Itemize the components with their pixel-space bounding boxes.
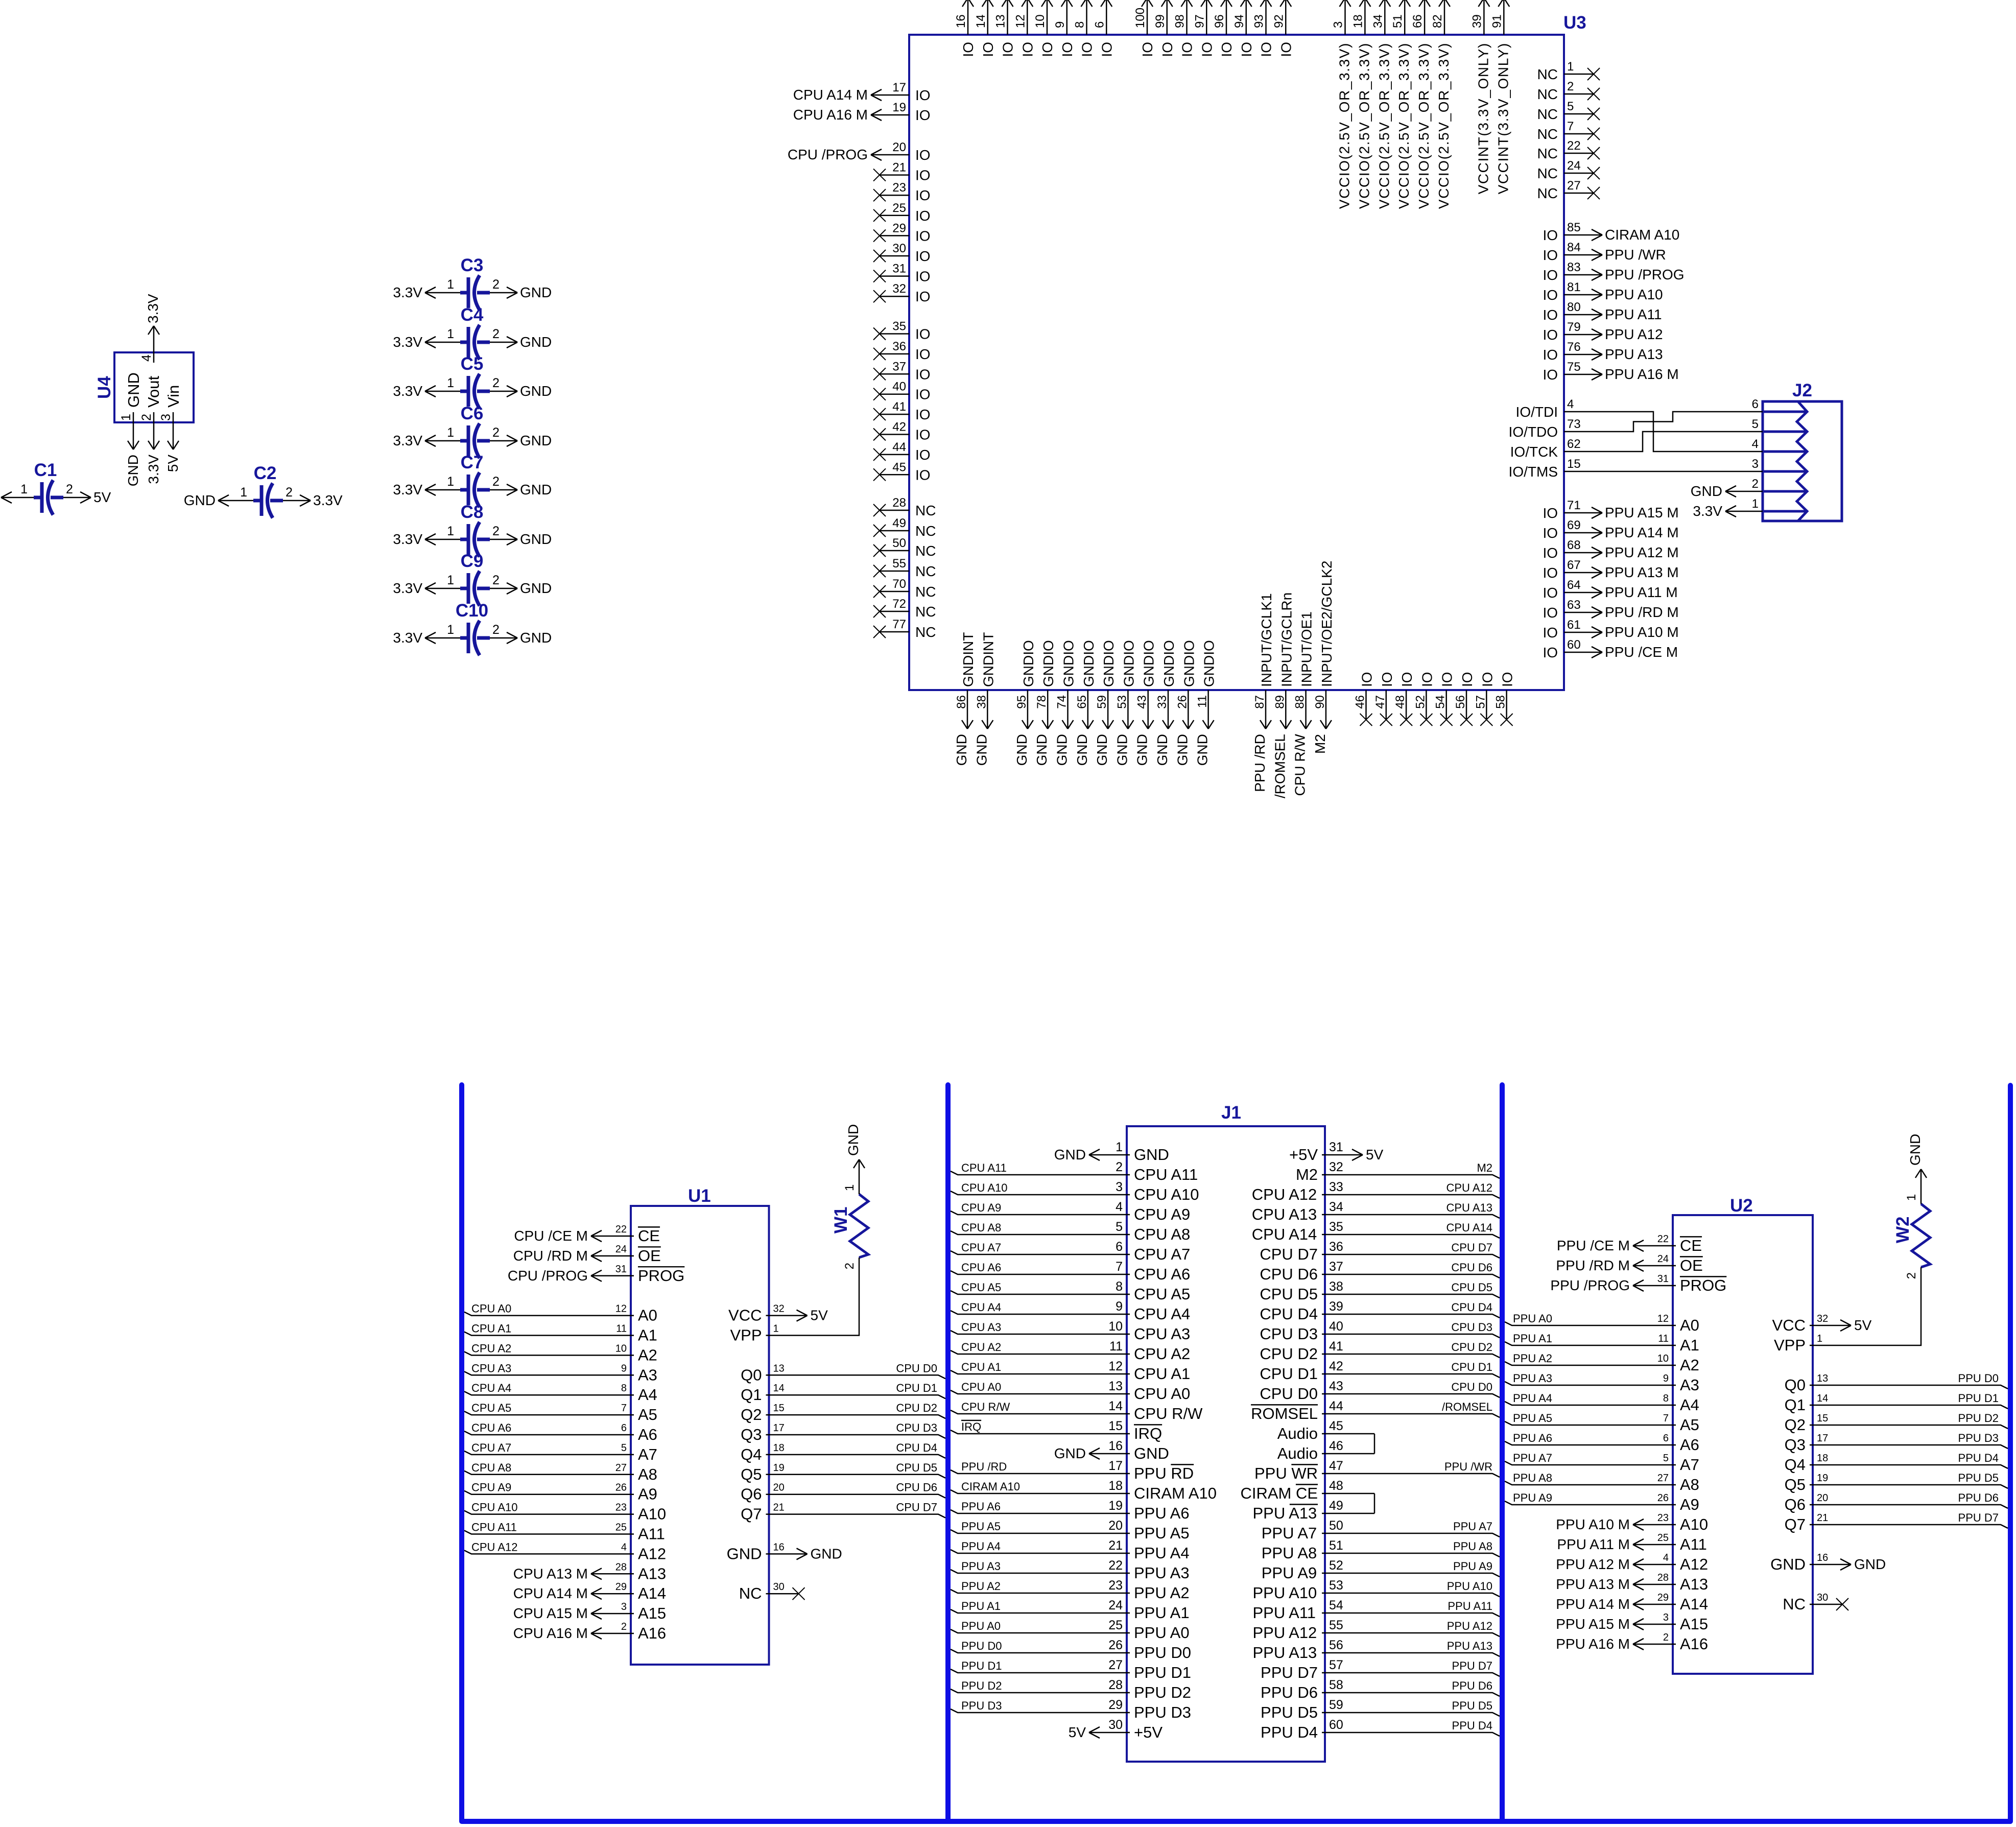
svg-text:PPU A1: PPU A1 xyxy=(961,1600,1001,1612)
svg-text:23: 23 xyxy=(1108,1578,1123,1593)
svg-text:49: 49 xyxy=(1329,1499,1343,1513)
U3 pin 68 (IO) right net PPU A12 M xyxy=(1543,538,1678,561)
U3 pin 31 (IO) left no-connect xyxy=(873,262,931,284)
svg-text:PPU A12 M: PPU A12 M xyxy=(1605,544,1679,560)
svg-text:PPU /WR: PPU /WR xyxy=(1605,247,1666,263)
svg-text:47: 47 xyxy=(1329,1459,1343,1473)
svg-text:1: 1 xyxy=(1905,1194,1918,1201)
svg-text:IO: IO xyxy=(1399,672,1415,687)
J1 pin 35 (CPU A14) xyxy=(1252,1220,1500,1243)
U3 pin 36 (IO) left no-connect xyxy=(873,340,931,362)
capacitor C5 xyxy=(460,354,490,409)
U1 pin 8 (A4) bus CPU A4 xyxy=(464,1382,657,1404)
svg-text:CPU A2: CPU A2 xyxy=(471,1342,511,1355)
svg-text:39: 39 xyxy=(1329,1299,1343,1314)
svg-text:1: 1 xyxy=(843,1184,857,1191)
svg-text:CPU D0: CPU D0 xyxy=(1451,1381,1492,1393)
svg-text:98: 98 xyxy=(1173,14,1187,28)
svg-text:INPUT/GCLK1: INPUT/GCLK1 xyxy=(1259,593,1274,687)
svg-text:IO: IO xyxy=(1543,505,1558,521)
U3 pin 32 (IO) left no-connect xyxy=(873,282,931,304)
J1 pin 57 (PPU D7) xyxy=(1261,1658,1500,1681)
svg-text:CPU A4: CPU A4 xyxy=(471,1382,511,1394)
svg-text:1: 1 xyxy=(119,414,133,421)
svg-text:PPU /CE M: PPU /CE M xyxy=(1557,1238,1630,1253)
U1 pin 9 (A3) bus CPU A3 xyxy=(464,1362,657,1384)
svg-text:PPU D0: PPU D0 xyxy=(1134,1644,1191,1662)
svg-text:GND: GND xyxy=(1054,1445,1086,1461)
svg-text:OE: OE xyxy=(1680,1256,1703,1274)
svg-text:54: 54 xyxy=(1434,695,1448,709)
svg-text:PPU A2: PPU A2 xyxy=(1513,1352,1552,1365)
svg-text:15: 15 xyxy=(1567,457,1581,471)
svg-text:CPU A7: CPU A7 xyxy=(471,1441,511,1454)
resistor W1 xyxy=(831,1194,868,1257)
svg-text:19: 19 xyxy=(1817,1473,1828,1484)
svg-text:Q7: Q7 xyxy=(1785,1515,1806,1533)
svg-text:CPU A11: CPU A11 xyxy=(1134,1166,1198,1183)
svg-text:2: 2 xyxy=(492,573,500,587)
U2 pin 31 (PROG) net PPU /PROG xyxy=(1550,1273,1726,1294)
svg-text:58: 58 xyxy=(1329,1678,1343,1692)
svg-text:PPU /RD: PPU /RD xyxy=(1252,734,1268,792)
svg-text:PPU A12 M: PPU A12 M xyxy=(1556,1556,1630,1572)
svg-text:43: 43 xyxy=(1329,1379,1343,1393)
svg-text:PPU D2: PPU D2 xyxy=(961,1679,1002,1692)
svg-text:CPU R/W: CPU R/W xyxy=(961,1401,1010,1413)
svg-text:GNDIO: GNDIO xyxy=(1201,640,1217,687)
svg-text:A13: A13 xyxy=(1680,1575,1708,1593)
svg-text:18: 18 xyxy=(1351,14,1365,28)
svg-text:18: 18 xyxy=(773,1442,785,1454)
U3 pin 93 (IO) top xyxy=(1252,0,1274,57)
U3 pin 53 (GNDIO) bottom net GND xyxy=(1114,640,1136,766)
U1 pin 6 (A6) bus CPU A6 xyxy=(464,1421,657,1443)
svg-text:C8: C8 xyxy=(461,502,484,522)
svg-text:28: 28 xyxy=(1657,1572,1669,1583)
J1 pin 7 (CPU A6) xyxy=(951,1260,1190,1283)
svg-text:7: 7 xyxy=(1567,120,1574,133)
svg-text:12: 12 xyxy=(1013,14,1027,28)
svg-text:GND: GND xyxy=(1014,734,1030,766)
svg-text:53: 53 xyxy=(1329,1578,1343,1593)
svg-text:PPU A0: PPU A0 xyxy=(961,1620,1001,1632)
svg-text:PPU A11: PPU A11 xyxy=(1605,306,1662,322)
svg-text:IO: IO xyxy=(915,447,931,463)
svg-text:4: 4 xyxy=(1752,437,1759,451)
J1 pin 21 (PPU A4) xyxy=(951,1538,1190,1562)
svg-text:14: 14 xyxy=(974,14,988,28)
U3 pin 14 (IO) top xyxy=(974,0,996,57)
svg-text:IO: IO xyxy=(915,187,931,203)
svg-text:GNDIO: GNDIO xyxy=(1101,640,1117,687)
svg-text:CPU D5: CPU D5 xyxy=(896,1461,937,1474)
svg-text:GND: GND xyxy=(1854,1556,1886,1572)
wire TDI: U3 pin4 to J2 pin4 xyxy=(1564,412,1763,452)
svg-text:CPU A6: CPU A6 xyxy=(471,1421,511,1434)
svg-text:24: 24 xyxy=(1108,1598,1123,1612)
U3 pin 51 (VCCIO(2.5V_OR_3.3V)) top xyxy=(1391,0,1412,209)
svg-text:2: 2 xyxy=(1116,1160,1123,1174)
svg-text:54: 54 xyxy=(1329,1598,1343,1612)
svg-text:GND: GND xyxy=(1094,734,1110,766)
svg-text:A0: A0 xyxy=(1680,1316,1699,1334)
svg-text:92: 92 xyxy=(1272,14,1286,28)
svg-text:PPU D3: PPU D3 xyxy=(1958,1432,1999,1444)
svg-text:Q0: Q0 xyxy=(1785,1376,1806,1394)
svg-text:NC: NC xyxy=(915,624,936,640)
svg-text:11: 11 xyxy=(1109,1339,1123,1354)
J1 pin 50 (PPU A7) xyxy=(1262,1518,1500,1542)
J1 pin 17 (PPU RD) xyxy=(951,1459,1194,1482)
J1 pin 44 (ROMSEL) xyxy=(1251,1399,1500,1422)
U2 pin 13 (Q0) bus PPU D0 xyxy=(1785,1372,2008,1394)
svg-text:C7: C7 xyxy=(461,453,484,472)
svg-text:IO: IO xyxy=(1543,565,1558,581)
U3 pin 43 (GNDIO) bottom net GND xyxy=(1134,640,1157,766)
svg-text:17: 17 xyxy=(1817,1433,1828,1444)
svg-text:11: 11 xyxy=(1658,1333,1669,1344)
J1 pin 51 (PPU A8) xyxy=(1262,1538,1500,1562)
U2 pin 6 (A6) bus PPU A6 xyxy=(1505,1432,1699,1454)
bus rail CPU address bus (left vertical) with bottom ground run xyxy=(462,1085,2010,1821)
svg-text:19: 19 xyxy=(892,101,906,114)
U3 pin 98 (IO) top xyxy=(1173,0,1195,57)
U1 pin 18 (Q4) bus CPU D4 xyxy=(741,1441,945,1463)
svg-text:56: 56 xyxy=(1454,695,1467,709)
U3 pin 59 (GNDIO) bottom net GND xyxy=(1094,640,1117,766)
svg-text:36: 36 xyxy=(892,340,906,353)
svg-text:41: 41 xyxy=(1329,1339,1343,1354)
svg-text:PPU A3: PPU A3 xyxy=(1134,1564,1190,1582)
svg-text:15: 15 xyxy=(1817,1413,1828,1424)
svg-text:Vout: Vout xyxy=(145,376,162,408)
J1 pin 33 (CPU A12) xyxy=(1252,1180,1500,1203)
U3 pin 92 (IO) top xyxy=(1272,0,1294,57)
svg-text:13: 13 xyxy=(773,1363,785,1374)
U3 pin 33 (GNDIO) bottom net GND xyxy=(1154,640,1177,766)
svg-text:IO: IO xyxy=(1159,42,1175,57)
U3 pin 80 (IO) right net PPU A11 xyxy=(1543,300,1662,323)
svg-text:C9: C9 xyxy=(461,551,484,571)
U4 pin 1 net GND xyxy=(119,412,141,486)
svg-text:PPU A15 M: PPU A15 M xyxy=(1605,505,1679,520)
svg-text:5: 5 xyxy=(1567,100,1574,113)
svg-text:IO: IO xyxy=(1099,42,1114,57)
svg-text:IO: IO xyxy=(1439,672,1455,687)
U3 pin 17 (IO) left net CPU A14 M xyxy=(793,81,931,103)
svg-text:PPU A11: PPU A11 xyxy=(1253,1604,1316,1622)
J1 pin 10 (CPU A3) xyxy=(951,1319,1190,1343)
J1 pin 30 (+5V) xyxy=(1069,1718,1163,1741)
svg-text:CPU D7: CPU D7 xyxy=(1451,1241,1492,1254)
svg-text:IO: IO xyxy=(980,42,996,57)
svg-text:IO: IO xyxy=(1543,625,1558,640)
U3 pin 100 (IO) top xyxy=(1133,0,1155,57)
svg-text:87: 87 xyxy=(1253,695,1267,709)
svg-text:IO: IO xyxy=(1543,327,1558,343)
svg-text:3: 3 xyxy=(1116,1180,1123,1194)
svg-text:27: 27 xyxy=(1567,179,1581,193)
J1 pin 48 (CIRAM CE) xyxy=(1240,1479,1374,1502)
J2 pin 5 xyxy=(1752,417,1759,431)
svg-text:GNDIO: GNDIO xyxy=(1141,640,1157,687)
svg-text:81: 81 xyxy=(1567,280,1581,294)
svg-text:VCCIO(2.5V_OR_3.3V): VCCIO(2.5V_OR_3.3V) xyxy=(1416,42,1432,209)
svg-text:Q3: Q3 xyxy=(741,1426,762,1443)
svg-text:62: 62 xyxy=(1567,437,1581,451)
resistor W2 xyxy=(1893,1204,1930,1267)
svg-text:PPU A16 M: PPU A16 M xyxy=(1556,1636,1630,1652)
U3 pin 37 (IO) left no-connect xyxy=(873,360,931,382)
J2 pin 6 xyxy=(1752,397,1759,411)
U1 pin 12 (A0) bus CPU A0 xyxy=(464,1302,657,1324)
svg-text:INPUT/OE1: INPUT/OE1 xyxy=(1299,611,1315,687)
svg-text:CPU A13: CPU A13 xyxy=(1252,1205,1317,1223)
svg-text:5: 5 xyxy=(621,1442,627,1454)
J1 pin 52 (PPU A9) xyxy=(1262,1558,1500,1582)
svg-text:51: 51 xyxy=(1391,14,1405,28)
U1 pin 17 (Q3) bus CPU D3 xyxy=(741,1421,945,1443)
U2 pin 15 (Q2) bus PPU D2 xyxy=(1785,1412,2008,1434)
svg-text:A9: A9 xyxy=(1680,1496,1699,1513)
svg-text:IO: IO xyxy=(1419,672,1435,687)
svg-text:A13: A13 xyxy=(638,1564,666,1582)
svg-text:GND: GND xyxy=(1134,1444,1169,1462)
U2 pin 27 (A8) bus PPU A8 xyxy=(1505,1472,1699,1493)
svg-text:GND: GND xyxy=(520,284,552,300)
svg-text:17: 17 xyxy=(892,81,906,94)
J1 pin 36 (CPU D7) xyxy=(1260,1240,1500,1263)
svg-text:CPU D3: CPU D3 xyxy=(896,1421,937,1434)
U1 pin 1 (VPP) wire xyxy=(730,1323,778,1344)
svg-text:1: 1 xyxy=(447,573,454,587)
svg-text:14: 14 xyxy=(1108,1399,1123,1413)
U3 pin 90 (INPUT/OE2/GCLK2) bottom net M2 xyxy=(1312,561,1335,754)
svg-text:12: 12 xyxy=(1657,1313,1669,1324)
svg-text:PPU A2: PPU A2 xyxy=(1134,1584,1190,1602)
U3 pin 6 (IO) top xyxy=(1093,0,1114,57)
U4 pin name GND xyxy=(125,372,143,408)
svg-text:CPU D3: CPU D3 xyxy=(1451,1321,1492,1334)
svg-text:Q6: Q6 xyxy=(741,1485,762,1503)
svg-text:PPU /CE M: PPU /CE M xyxy=(1605,644,1678,660)
U2 pin 16 (GND) net GND xyxy=(1770,1552,1886,1573)
U2 pin 19 (Q5) bus PPU D5 xyxy=(1785,1472,2008,1493)
U1 pin 21 (Q7) bus CPU D7 xyxy=(741,1501,945,1523)
svg-text:IO: IO xyxy=(915,147,931,163)
svg-text:Q7: Q7 xyxy=(741,1505,762,1523)
svg-text:CPU D2: CPU D2 xyxy=(896,1402,937,1414)
J1 pin 49 (PPU A13) xyxy=(1253,1499,1375,1522)
svg-text:27: 27 xyxy=(1108,1658,1123,1672)
svg-text:29: 29 xyxy=(615,1581,627,1593)
U3 pin 15 (IO/TMS) right wire to J2 xyxy=(1509,457,1581,480)
svg-text:GNDIO: GNDIO xyxy=(1040,640,1056,687)
U2 pin 10 (A2) bus PPU A2 xyxy=(1505,1352,1699,1374)
svg-text:21: 21 xyxy=(1108,1538,1123,1553)
svg-text:GND: GND xyxy=(1074,734,1090,766)
J1 pin 54 (PPU A11) xyxy=(1253,1598,1500,1622)
svg-text:U3: U3 xyxy=(1563,13,1586,33)
svg-text:3: 3 xyxy=(621,1601,627,1612)
U4 pin 2 net 3.3V xyxy=(139,412,161,484)
svg-text:15: 15 xyxy=(773,1403,785,1414)
svg-text:IO: IO xyxy=(915,387,931,402)
svg-text:CPU A3: CPU A3 xyxy=(961,1321,1001,1334)
svg-text:Q5: Q5 xyxy=(1785,1476,1806,1493)
svg-text:50: 50 xyxy=(892,536,906,550)
svg-text:GNDIO: GNDIO xyxy=(1161,640,1177,687)
U3 pin 86 (GNDINT) bottom net GND xyxy=(954,632,976,766)
svg-text:3.3V: 3.3V xyxy=(393,334,422,350)
svg-text:GND: GND xyxy=(1195,734,1211,766)
svg-text:IO: IO xyxy=(1543,287,1558,303)
J1 pin 4 (CPU A9) xyxy=(951,1200,1190,1223)
svg-text:PPU A6: PPU A6 xyxy=(1134,1504,1190,1522)
svg-text:20: 20 xyxy=(1817,1492,1828,1504)
svg-text:12: 12 xyxy=(615,1303,627,1315)
svg-text:NC: NC xyxy=(739,1584,762,1602)
U2 pin 28 (A13) net PPU A13 M xyxy=(1556,1572,1708,1593)
svg-text:5V: 5V xyxy=(165,455,181,472)
svg-text:20: 20 xyxy=(1108,1518,1123,1533)
U3 pin 25 (IO) left no-connect xyxy=(873,201,931,224)
svg-text:IO: IO xyxy=(915,107,931,123)
svg-text:GND: GND xyxy=(125,455,141,486)
svg-text:77: 77 xyxy=(892,618,906,631)
J1 pin 16 (GND) xyxy=(1054,1439,1169,1462)
svg-text:NC: NC xyxy=(915,503,936,518)
J2 pin 1 net 3.3V xyxy=(1693,503,1763,519)
svg-text:34: 34 xyxy=(1329,1200,1343,1214)
svg-text:NC: NC xyxy=(1537,126,1558,142)
svg-text:64: 64 xyxy=(1567,578,1581,592)
svg-text:6: 6 xyxy=(1093,21,1106,28)
svg-text:CIRAM CE: CIRAM CE xyxy=(1240,1484,1318,1502)
svg-text:PPU A9: PPU A9 xyxy=(1453,1560,1492,1573)
svg-text:A7: A7 xyxy=(1680,1456,1699,1474)
U3 pin 23 (IO) left no-connect xyxy=(873,181,931,203)
svg-text:IO: IO xyxy=(1543,585,1558,601)
U3 pin 72 (NC) left no-connect xyxy=(873,597,936,620)
svg-text:GND: GND xyxy=(1174,734,1190,766)
U2 pin 14 (Q1) bus PPU D1 xyxy=(1785,1392,2008,1414)
U3 pin 55 (NC) left no-connect xyxy=(873,557,936,579)
svg-text:GND: GND xyxy=(1034,734,1050,766)
svg-text:Audio: Audio xyxy=(1277,1425,1318,1442)
J1 pin 59 (PPU D5) xyxy=(1261,1698,1500,1721)
svg-text:49: 49 xyxy=(892,516,906,530)
U1 pin 14 (Q1) bus CPU D1 xyxy=(741,1382,945,1404)
svg-text:Q5: Q5 xyxy=(741,1465,762,1483)
svg-text:PPU D0: PPU D0 xyxy=(1958,1372,1999,1385)
svg-text:14: 14 xyxy=(773,1383,785,1394)
svg-text:50: 50 xyxy=(1329,1518,1343,1533)
svg-text:2: 2 xyxy=(1663,1632,1669,1643)
svg-text:PPU D5: PPU D5 xyxy=(1958,1472,1999,1484)
svg-text:PPU /RD M: PPU /RD M xyxy=(1605,604,1679,620)
svg-text:52: 52 xyxy=(1329,1558,1343,1573)
W1 pin 2 wire to U1 VPP xyxy=(766,1257,860,1336)
svg-text:A9: A9 xyxy=(638,1485,657,1503)
svg-text:4: 4 xyxy=(1116,1200,1123,1214)
svg-text:8: 8 xyxy=(1073,21,1087,28)
svg-text:PPU A2: PPU A2 xyxy=(961,1580,1001,1593)
U1 pin 25 (A11) bus CPU A11 xyxy=(464,1521,665,1543)
svg-text:1: 1 xyxy=(447,474,454,489)
svg-text:IO: IO xyxy=(1140,42,1155,57)
J1 pin 37 (CPU D6) xyxy=(1260,1260,1500,1283)
svg-text:PPU A14 M: PPU A14 M xyxy=(1605,525,1679,540)
svg-text:19: 19 xyxy=(1108,1499,1123,1513)
U2 pin 25 (A11) net PPU A11 M xyxy=(1557,1532,1707,1553)
svg-text:PPU A11 M: PPU A11 M xyxy=(1557,1536,1630,1552)
svg-text:IO: IO xyxy=(1543,227,1558,243)
svg-text:5V: 5V xyxy=(811,1308,828,1323)
svg-text:IO: IO xyxy=(1359,672,1375,687)
svg-text:14: 14 xyxy=(1817,1393,1828,1404)
svg-text:IO: IO xyxy=(1543,247,1558,263)
connector J1 body xyxy=(1127,1103,1325,1762)
U3 pin 99 (IO) top xyxy=(1153,0,1175,57)
svg-text:A8: A8 xyxy=(638,1465,657,1483)
svg-text:Q3: Q3 xyxy=(1785,1436,1806,1454)
svg-text:/ROMSEL: /ROMSEL xyxy=(1272,734,1288,798)
svg-text:5V: 5V xyxy=(1854,1317,1872,1333)
svg-text:IO: IO xyxy=(915,87,931,103)
svg-text:A12: A12 xyxy=(638,1545,666,1562)
svg-text:39: 39 xyxy=(1470,14,1484,28)
svg-text:3.3V: 3.3V xyxy=(146,455,161,484)
J1 pin 29 (PPU D3) xyxy=(951,1698,1191,1721)
bus rail right vertical xyxy=(1500,1085,1505,1821)
svg-text:PROG: PROG xyxy=(1680,1276,1726,1294)
svg-text:CPU A9: CPU A9 xyxy=(961,1201,1001,1214)
svg-text:PPU A7: PPU A7 xyxy=(1513,1452,1552,1464)
svg-text:PPU A8: PPU A8 xyxy=(1262,1544,1317,1562)
U3 pin 89 (INPUT/GCLRn) bottom net /ROMSEL xyxy=(1272,592,1294,798)
svg-text:CPU A10: CPU A10 xyxy=(1134,1185,1199,1203)
J1 pin 58 (PPU D6) xyxy=(1261,1678,1500,1701)
svg-text:GNDIO: GNDIO xyxy=(1021,640,1036,687)
U3 pin 60 (IO) right net PPU /CE M xyxy=(1543,638,1678,660)
J1 pin 28 (PPU D2) xyxy=(951,1678,1191,1701)
svg-text:26: 26 xyxy=(1175,695,1189,709)
J1 pin 9 (CPU A4) xyxy=(951,1299,1190,1323)
U3 pin 91 (VCCINT(3.3V_ONLY)) top xyxy=(1490,0,1511,194)
C4 pin 2 net GND xyxy=(490,327,552,350)
U3 pin 8 (IO) top xyxy=(1073,0,1095,57)
U3 pin 24 (NC) right no-connect xyxy=(1537,159,1600,181)
C6 pin 1 net 3.3V xyxy=(393,425,460,448)
svg-text:IRQ: IRQ xyxy=(961,1420,981,1433)
capacitor C6 xyxy=(460,404,490,458)
svg-text:IO/TDO: IO/TDO xyxy=(1509,424,1558,440)
svg-text:PPU D4: PPU D4 xyxy=(1958,1452,1999,1464)
svg-text:PPU D0: PPU D0 xyxy=(961,1640,1002,1652)
svg-text:CPU A0: CPU A0 xyxy=(471,1302,511,1315)
J1 pin 42 (CPU D1) xyxy=(1260,1359,1500,1383)
svg-text:22: 22 xyxy=(1567,139,1581,153)
svg-text:85: 85 xyxy=(1567,221,1581,234)
U3 pin 95 (GNDIO) bottom net GND xyxy=(1014,640,1036,766)
svg-text:29: 29 xyxy=(1108,1698,1123,1712)
C1 pin 2 net 5V xyxy=(63,482,111,505)
J1 pin 2 (CPU A11) xyxy=(951,1160,1198,1183)
U2 pin 9 (A3) bus PPU A3 xyxy=(1505,1372,1699,1394)
capacitor C9 xyxy=(460,551,490,606)
